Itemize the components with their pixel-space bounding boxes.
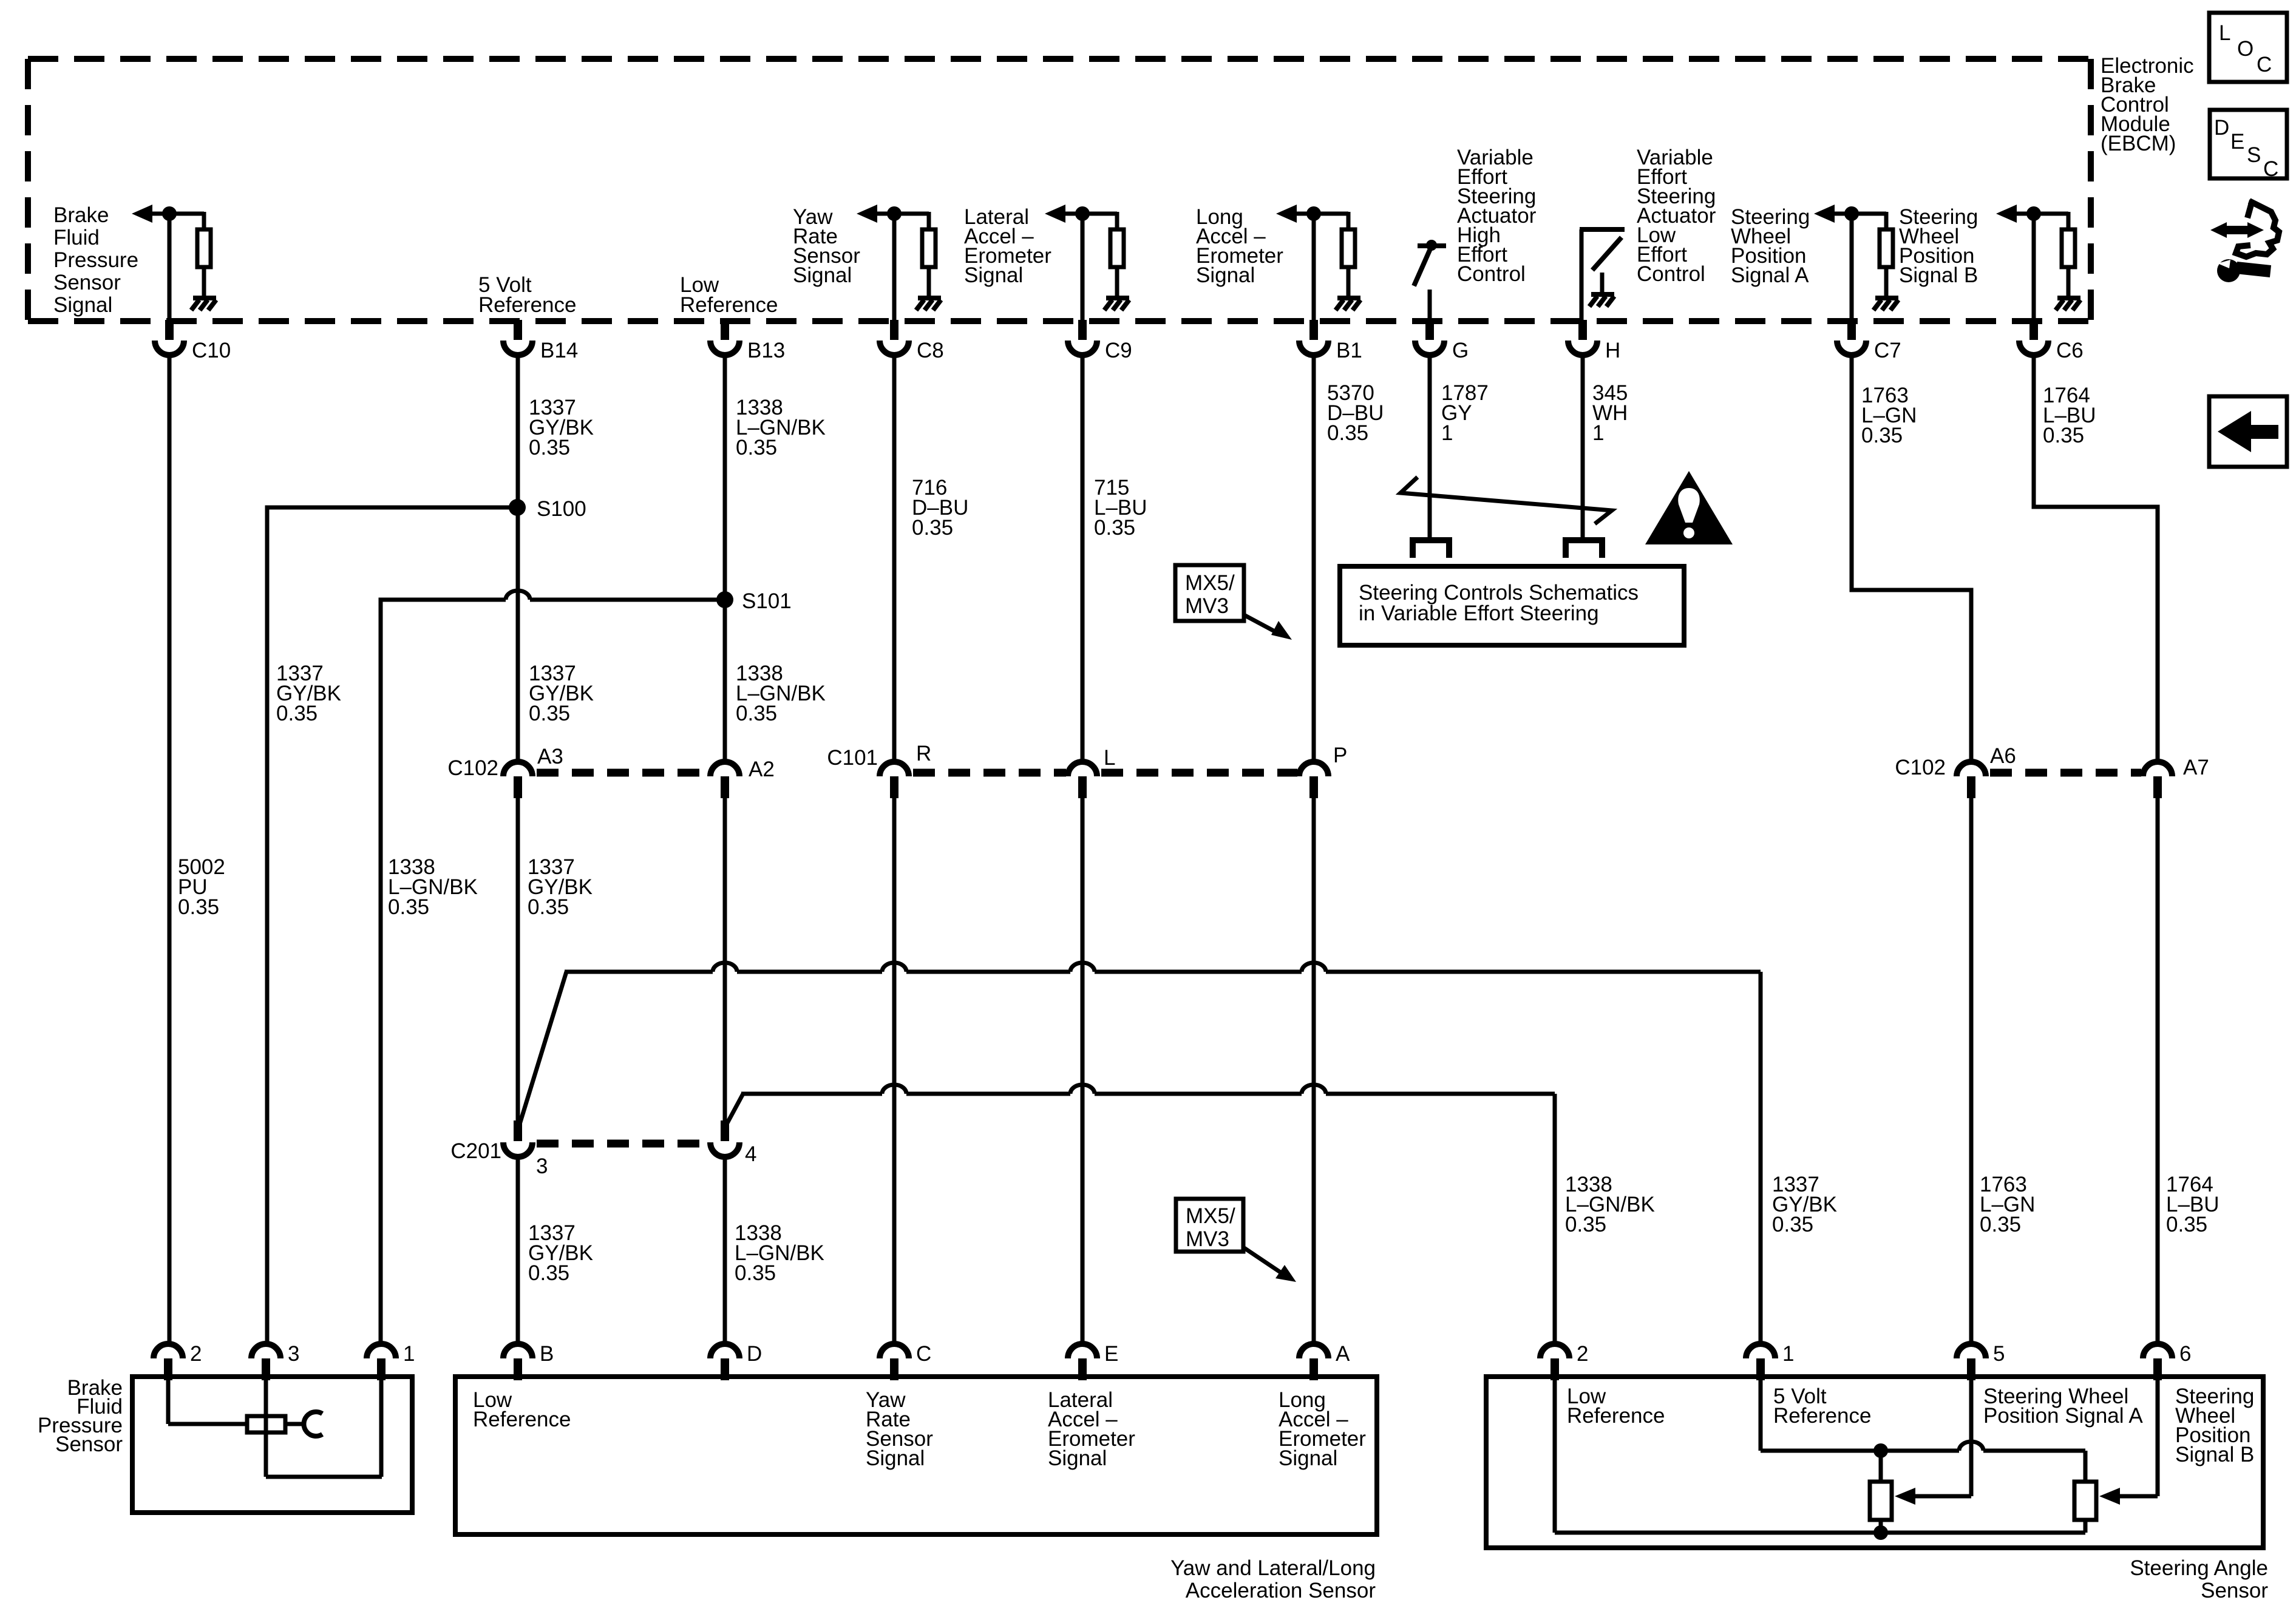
steering pot wiper B — [2156, 1379, 2160, 1496]
svg-text:E: E — [1104, 1342, 1118, 1366]
wire C6 to C102 A7 — [2034, 354, 2158, 763]
svg-text:3: 3 — [536, 1154, 548, 1178]
svg-text:5: 5 — [1993, 1342, 2005, 1366]
svg-text:Signal B: Signal B — [2175, 1443, 2254, 1466]
svg-text:0.35: 0.35 — [528, 1261, 569, 1285]
svg-text:0.35: 0.35 — [736, 436, 777, 459]
svg-text:C102: C102 — [1895, 756, 1946, 779]
wire C201-4 to steering sensor pin 2 (1338 low reference bus) — [727, 1094, 743, 1124]
connector pin G (EBCM) — [1425, 320, 1434, 340]
svg-text:D: D — [2214, 116, 2229, 140]
svg-text:Signal: Signal — [1196, 263, 1255, 287]
brake sensor pin 1 — [367, 1344, 396, 1358]
brake sensor pin 2 — [154, 1344, 183, 1358]
svg-text:B13: B13 — [747, 339, 785, 362]
svg-text:0.35: 0.35 — [529, 702, 570, 725]
svg-text:1: 1 — [1782, 1342, 1794, 1366]
svg-text:Reference: Reference — [478, 293, 576, 317]
svg-text:Acceleration Sensor: Acceleration Sensor — [1186, 1579, 1376, 1602]
svg-text:0.35: 0.35 — [912, 516, 953, 540]
svg-text:S101: S101 — [742, 589, 792, 613]
svg-text:Signal: Signal — [964, 263, 1023, 287]
svg-text:H: H — [1605, 339, 1620, 362]
brake sensor internal circuit — [166, 1379, 171, 1424]
svg-text:C201: C201 — [450, 1139, 501, 1163]
svg-text:1: 1 — [1441, 421, 1453, 445]
steering pot wiper A — [1969, 1379, 1974, 1496]
svg-text:0.35: 0.35 — [2166, 1213, 2207, 1236]
wire G to steering controls — [1428, 354, 1432, 539]
svg-text:R: R — [916, 742, 931, 765]
dashed connector link A6-A7 — [1990, 769, 2141, 777]
LOC reference box — [2209, 13, 2287, 82]
svg-text:6: 6 — [2179, 1342, 2191, 1366]
connector C101 pin L — [1068, 762, 1097, 776]
svg-text:A7: A7 — [2183, 756, 2209, 779]
connector C201 pin 3 — [514, 1120, 522, 1141]
connector pin B14 (EBCM) — [514, 320, 522, 340]
connector pin B1 (EBCM) — [1309, 320, 1318, 340]
svg-text:MV3: MV3 — [1185, 594, 1229, 618]
wire H to steering controls — [1581, 354, 1585, 539]
connector C102 pin A6 — [1957, 762, 1986, 776]
svg-text:Signal: Signal — [1279, 1446, 1337, 1470]
svg-text:C8: C8 — [917, 339, 944, 362]
svg-text:Reference: Reference — [680, 293, 778, 317]
wire L to yaw sensor pin E — [1081, 798, 1085, 1344]
wire B13 to C102 A2 — [723, 354, 727, 763]
svg-text:C6: C6 — [2056, 339, 2084, 362]
svg-text:Signal A: Signal A — [1731, 263, 1809, 287]
svg-text:B14: B14 — [540, 339, 578, 362]
svg-text:Position Signal A: Position Signal A — [1983, 1404, 2143, 1428]
wire A7 to steering sensor pin 6 — [2156, 798, 2160, 1344]
diagnostic car/wrench icon — [2223, 226, 2251, 234]
svg-text:L: L — [2219, 21, 2230, 45]
twisted-lead crossing mark over G and H wires — [1401, 477, 1612, 524]
connector pin C6 (EBCM) — [2029, 320, 2038, 340]
svg-text:0.35: 0.35 — [1861, 424, 1903, 447]
svg-text:in Variable Effort Steering: in Variable Effort Steering — [1359, 602, 1599, 625]
svg-text:3: 3 — [288, 1342, 299, 1366]
svg-text:C9: C9 — [1105, 339, 1132, 362]
svg-text:Reference: Reference — [1773, 1404, 1871, 1428]
connector pin C8 (EBCM) — [890, 320, 898, 340]
connector C101 pin P — [1299, 762, 1328, 776]
svg-text:Control: Control — [1637, 262, 1705, 286]
steering sensor pin 2 — [1540, 1344, 1569, 1358]
back arrow box — [2209, 396, 2287, 467]
svg-text:Yaw and Lateral/Long: Yaw and Lateral/Long — [1170, 1556, 1376, 1580]
svg-text:A: A — [1336, 1342, 1350, 1366]
svg-text:Signal: Signal — [866, 1446, 925, 1470]
connector pin H (EBCM) — [1578, 320, 1587, 340]
svg-text:Sensor: Sensor — [53, 271, 121, 294]
svg-text:0.35: 0.35 — [735, 1261, 776, 1285]
svg-text:MX5/: MX5/ — [1186, 1204, 1235, 1228]
EBCM dashed module box — [28, 56, 2091, 62]
svg-text:0.35: 0.35 — [178, 895, 219, 919]
wire C201-3 to yaw sensor pin B — [516, 1156, 520, 1344]
terminal for G wire — [1413, 540, 1449, 558]
wire C10 to brake sensor pin 2 — [168, 354, 172, 1344]
wire C7 to C102 A6 — [1852, 354, 1971, 763]
Yaw and Lateral/Long Acceleration Sensor box — [455, 1377, 1377, 1534]
wire C201-4 to yaw sensor pin D — [723, 1156, 727, 1344]
steering sensor pin 1 — [1746, 1344, 1775, 1358]
svg-text:S100: S100 — [537, 497, 586, 521]
svg-text:Reference: Reference — [1567, 1404, 1665, 1428]
svg-text:4: 4 — [745, 1142, 756, 1166]
yaw sensor pin B — [503, 1344, 532, 1358]
wire C8 to C101 R — [892, 354, 897, 763]
svg-text:S: S — [2247, 143, 2261, 167]
connector C201 pin 4 — [721, 1120, 729, 1141]
svg-text:Pressure: Pressure — [53, 248, 138, 272]
svg-text:0.35: 0.35 — [1327, 421, 1368, 445]
yaw sensor pin D — [710, 1344, 739, 1358]
svg-text:0.35: 0.35 — [1565, 1213, 1606, 1236]
steering sensor pin 6 — [2143, 1344, 2172, 1358]
svg-text:L: L — [1104, 746, 1115, 770]
long accel signal arrow, pull-up resistor and ground (EBCM internal) — [1276, 205, 1297, 223]
svg-text:Control: Control — [1457, 262, 1526, 286]
svg-text:Signal B: Signal B — [1899, 263, 1978, 287]
svg-text:C101: C101 — [827, 746, 878, 770]
MX5/MV3 option tag (upper) — [1175, 565, 1244, 621]
svg-text:0.35: 0.35 — [529, 436, 570, 459]
Steering Angle Sensor box — [1486, 1377, 2263, 1548]
svg-text:B1: B1 — [1336, 339, 1362, 362]
warning caution triangle — [1645, 471, 1733, 544]
svg-text:1: 1 — [1592, 421, 1604, 445]
svg-text:Fluid: Fluid — [53, 226, 100, 249]
connector pin C9 (EBCM) — [1078, 320, 1087, 340]
Brake Fluid Pressure Sensor box — [132, 1377, 412, 1513]
svg-text:Brake: Brake — [53, 203, 109, 227]
svg-text:0.35: 0.35 — [1980, 1213, 2021, 1236]
svg-text:0.35: 0.35 — [736, 702, 777, 725]
splice S101 — [381, 600, 506, 1344]
connector pin C7 (EBCM) — [1847, 320, 1856, 340]
connector C102 pin A7 — [2143, 762, 2172, 776]
brake fluid pressure signal arrow, pull-up resistor and ground (EBCM internal) — [132, 205, 152, 223]
dashed connector link R-L-P — [913, 769, 1066, 777]
steering sensor pin 5 — [1957, 1344, 1986, 1358]
svg-text:0.35: 0.35 — [388, 895, 429, 919]
wire A6 to steering sensor pin 5 — [1969, 798, 1974, 1344]
svg-text:B: B — [540, 1342, 554, 1366]
svg-text:MV3: MV3 — [1186, 1227, 1229, 1251]
svg-text:0.35: 0.35 — [276, 702, 318, 725]
yaw sensor pin E — [1068, 1344, 1097, 1358]
svg-text:C: C — [2263, 157, 2278, 181]
svg-text:MX5/: MX5/ — [1185, 571, 1235, 595]
wire B1 to C101 P — [1312, 354, 1316, 763]
svg-text:Steering Angle: Steering Angle — [2130, 1556, 2268, 1580]
MX5/MV3 option tag (lower) — [1176, 1199, 1243, 1252]
wire R to yaw sensor pin C — [892, 798, 897, 1344]
wire P to yaw sensor pin A — [1312, 798, 1316, 1344]
svg-text:0.35: 0.35 — [1772, 1213, 1813, 1236]
dashed connector link C201 3-4 — [537, 1140, 710, 1148]
wire A3 to C201 pin 3 — [516, 798, 520, 1123]
svg-text:G: G — [1452, 339, 1469, 362]
svg-text:0.35: 0.35 — [528, 895, 569, 919]
svg-text:0.35: 0.35 — [1094, 516, 1135, 540]
wire A2 to C201 pin 4 — [723, 798, 727, 1123]
svg-text:0.35: 0.35 — [2043, 424, 2084, 447]
svg-text:2: 2 — [190, 1342, 202, 1366]
svg-text:(EBCM): (EBCM) — [2101, 132, 2176, 155]
svg-text:Signal: Signal — [1048, 1446, 1107, 1470]
svg-text:Signal: Signal — [53, 293, 112, 317]
svg-text:C10: C10 — [192, 339, 231, 362]
wire B14 to C102 A3 — [516, 354, 520, 763]
variable effort steering actuator low effort control switch and ground (EBCM internal) — [1580, 229, 1584, 322]
svg-text:2: 2 — [1577, 1342, 1588, 1366]
splice S100 — [267, 507, 517, 1344]
brake sensor pin 3 — [251, 1344, 280, 1358]
steering pos A signal arrow, pull-up resistor and ground (EBCM internal) — [1814, 205, 1835, 223]
dashed connector link A3-A2 — [537, 769, 708, 777]
connector pin C10 (EBCM) — [165, 320, 174, 340]
connector pin B13 (EBCM) — [721, 320, 729, 340]
terminal for H wire — [1566, 540, 1602, 558]
connector C102 pin A3 — [503, 762, 532, 776]
svg-text:Sensor: Sensor — [2201, 1579, 2268, 1602]
svg-text:D: D — [747, 1342, 762, 1366]
svg-text:C7: C7 — [1874, 339, 1901, 362]
svg-text:A6: A6 — [1990, 744, 2016, 768]
svg-text:O: O — [2237, 37, 2254, 61]
lateral accel signal arrow, pull-up resistor and ground (EBCM internal) — [1045, 205, 1065, 223]
yaw rate signal arrow, pull-up resistor and ground (EBCM internal) — [857, 205, 877, 223]
yaw sensor pin A — [1299, 1344, 1328, 1358]
wire C9 to C101 L — [1081, 354, 1085, 763]
steering pos B signal arrow, pull-up resistor and ground (EBCM internal) — [1996, 205, 2017, 223]
Steering Controls Schematics reference box — [1340, 566, 1684, 645]
svg-text:1: 1 — [403, 1342, 415, 1366]
svg-text:A3: A3 — [537, 745, 563, 768]
svg-text:Sensor: Sensor — [55, 1432, 123, 1456]
connector C101 pin R — [880, 762, 909, 776]
svg-text:A2: A2 — [749, 758, 775, 781]
connector C102 pin A2 — [710, 762, 739, 776]
svg-text:C102: C102 — [447, 756, 498, 780]
svg-text:C: C — [2257, 53, 2272, 76]
steering sensor internal potentiometers — [1759, 1379, 1763, 1451]
svg-text:P: P — [1333, 744, 1347, 767]
svg-text:Signal: Signal — [793, 263, 852, 287]
wire C201-3 to steering sensor pin 1 (1337 5V reference bus) — [520, 972, 566, 1124]
svg-text:Reference: Reference — [473, 1408, 571, 1431]
variable effort steering actuator high effort control driver (EBCM internal) — [1418, 243, 1446, 248]
svg-text:C: C — [916, 1342, 931, 1366]
DESC reference box — [2210, 110, 2287, 178]
yaw sensor pin C — [880, 1344, 909, 1358]
svg-text:E: E — [2230, 130, 2244, 154]
